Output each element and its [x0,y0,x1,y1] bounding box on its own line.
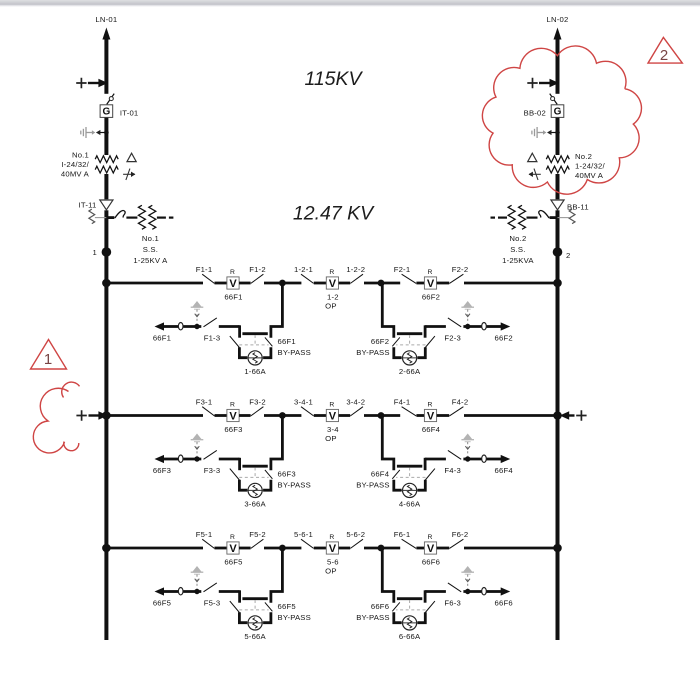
svg-text:1-66A: 1-66A [244,367,266,376]
wire station service continuation [498,217,507,219]
regulator 4-66A [403,483,417,497]
revision cloud 2 [482,46,641,194]
node junction left [279,412,286,419]
svg-text:No.2: No.2 [509,234,526,243]
svg-text:115KV: 115KV [304,68,363,90]
svg-text:2-66A: 2-66A [399,367,421,376]
wire branch feeder 66F5 [164,590,179,593]
wire [215,414,228,417]
grounded wye symbol [123,169,135,180]
bypass linkage dashed [396,335,425,345]
bypass switch bar 4-66A [397,465,422,468]
svg-text:40MV A: 40MV A [575,171,604,180]
bypass blade right [265,470,273,479]
node arrester tap 66F3 [194,456,199,461]
switch F1-3 [204,318,217,327]
grounded wye symbol [529,169,541,180]
wire regulator 1-66A frame left [239,347,247,357]
wire [416,414,424,417]
recloser 66F1 V box [227,277,239,289]
wire [339,414,351,417]
transformer station service No.2 winding 2 [508,205,515,229]
wire regulator 6-66A frame right [394,612,402,622]
svg-text:1-2: 1-2 [327,292,339,301]
bypass blade right [265,337,273,346]
wire [437,547,450,550]
wire [314,547,327,550]
node right bus junction row 1 [553,279,562,288]
svg-text:R: R [329,402,334,409]
svg-text:F3-2: F3-2 [249,398,266,407]
wire [339,547,351,550]
wire [264,547,282,550]
svg-text:R: R [230,402,235,409]
wire LN-02 tap arrow [527,78,537,88]
wire LN-01 incoming line arrow [102,28,110,40]
arrester 66F5 [191,566,204,589]
wire station service tap No.2 [550,216,558,219]
svg-text:R: R [329,534,334,541]
arrester 66F1 [191,301,204,324]
ground symbol grey [532,127,545,138]
node junction right [378,280,385,287]
arrester 66F3 [191,434,204,457]
regulator 3-66A [248,483,262,497]
svg-text:3-66A: 3-66A [244,499,266,508]
breaker BB-02 G box [551,105,564,118]
arrow feeder 66F4 out [501,455,511,463]
wire drop from junction to bypass 2-66A [382,283,394,338]
transformer No.2 primary winding [555,155,559,174]
wire [264,414,282,417]
fuse cutout on 66F3 [178,455,183,462]
bypass blade left [425,469,435,480]
wire right bus [556,34,560,640]
bypass blade left [425,601,435,612]
bypass blade left [230,469,240,480]
node junction left [279,545,286,552]
svg-text:66F5: 66F5 [153,599,171,608]
transformer No.2 secondary winding [546,166,569,173]
switch disconnect above IT-01 [103,94,109,105]
arrow feeder 66F3 out [155,455,165,463]
svg-text:4-66A: 4-66A [399,499,421,508]
wire [314,414,327,417]
svg-text:F2-1: F2-1 [394,265,411,274]
wire bypass stub [424,590,427,602]
switch F6-3 [448,583,461,592]
svg-text:R: R [230,269,235,276]
node arrester tap 66F4 [465,456,470,461]
bypass switch bar 5-66A [242,597,267,600]
svg-text:V: V [329,543,337,555]
wire feeder F3 from left bus [106,414,203,417]
svg-text:F6-1: F6-1 [394,530,411,539]
switch F3-3 [204,450,217,459]
bypass linkage dashed [239,468,268,478]
revision cloud 1 [62,382,80,397]
svg-text:LN-02: LN-02 [547,15,569,24]
recloser 5-6 V box [326,542,338,554]
svg-text:66F2: 66F2 [371,337,389,346]
svg-text:F5-1: F5-1 [196,530,213,539]
svg-text:1-25KV A: 1-25KV A [133,256,168,265]
wire regulator 5-66A frame left [239,612,247,622]
svg-text:F5-2: F5-2 [249,530,266,539]
wire [215,547,228,550]
node 1 [102,247,112,257]
wire regulator 2-66A frame right [394,347,402,357]
station service switch blade [115,210,125,218]
station service switch blade [539,210,549,218]
arrester zigzag at BB-11 junction [558,217,570,219]
svg-text:F3-3: F3-3 [204,466,221,475]
svg-text:3-4: 3-4 [327,425,339,434]
svg-text:S.S.: S.S. [143,245,158,254]
svg-text:66F6: 66F6 [371,602,389,611]
wire [364,414,381,417]
wire regulator 4-66A frame left [418,480,426,490]
bypass blade right [392,337,400,346]
svg-text:BY-PASS: BY-PASS [278,481,311,490]
wire bypass stub [424,325,427,337]
wire tap arrow right bus row 2 [576,410,586,420]
svg-text:F5-3: F5-3 [204,599,221,608]
wire regulator 3-66A frame right [263,480,271,490]
wire tap arrow left bus row 2 [76,410,86,420]
svg-text:12.47 KV: 12.47 KV [293,203,375,225]
bypass linkage dashed [239,335,268,345]
breaker BB-11 triangle [555,199,559,210]
wire [364,547,381,550]
wire to station service transformer No.2 [527,217,538,219]
svg-text:F6-3: F6-3 [444,599,461,608]
revision triangle 1 [31,340,67,370]
wire bypass stub [238,458,241,470]
bypass linkage dashed [396,600,425,610]
fuse cutout on 66F1 [178,323,183,330]
svg-text:OP: OP [325,434,337,443]
wire [381,547,400,550]
svg-text:2: 2 [566,251,570,260]
wire [464,414,558,417]
svg-text:V: V [229,543,237,555]
bypass switch bar 1-66A [242,332,267,335]
wire LN-02 incoming line arrow [554,28,562,40]
svg-text:IT-01: IT-01 [120,108,139,117]
node junction right [378,545,385,552]
wire station service tap No.1 [106,216,114,219]
wire station service continuation [157,217,166,219]
svg-text:66F5: 66F5 [224,557,242,566]
breaker IT-01 G box [100,105,113,118]
svg-text:No.1: No.1 [142,234,159,243]
svg-text:66F5: 66F5 [278,602,296,611]
node right bus junction row 2 [553,411,562,420]
transformer station service No.2 winding 1 [519,205,526,229]
svg-text:F4-3: F4-3 [444,466,461,475]
wire [381,414,400,417]
svg-text:F4-2: F4-2 [452,398,469,407]
transformer No.1 primary winding [104,155,108,174]
recloser 1-2 V box [326,277,338,289]
svg-text:V: V [229,278,237,290]
node arrester tap 66F2 [465,324,470,329]
wire regulator 1-66A frame right [263,347,271,357]
regulator 6-66A [403,616,417,630]
recloser 66F5 V box [227,542,239,554]
svg-text:1: 1 [44,351,52,368]
svg-text:F1-3: F1-3 [204,334,221,343]
svg-text:66F6: 66F6 [422,557,440,566]
svg-text:No.2: No.2 [575,152,592,161]
wire regulator 2-66A frame left [418,347,426,357]
svg-text:LN-01: LN-01 [95,15,117,24]
svg-text:F2-2: F2-2 [452,265,469,274]
svg-text:66F4: 66F4 [422,425,441,434]
svg-text:66F1: 66F1 [153,334,171,343]
svg-text:F1-2: F1-2 [249,265,266,274]
node 2 [553,247,563,257]
svg-text:5-6-2: 5-6-2 [346,530,365,539]
bypass blade right [392,602,400,611]
wire branch feeder 66F2 [487,325,502,328]
node right bus junction row 3 [553,544,562,553]
svg-text:BB-02: BB-02 [524,108,546,117]
recloser 66F6 V box [424,542,436,554]
arrester 66F6 [461,566,474,589]
svg-text:66F1: 66F1 [278,337,296,346]
wire left bus [104,34,108,640]
node junction right [378,412,385,419]
arrow feeder 66F2 out [501,322,511,330]
svg-text:F3-1: F3-1 [196,398,213,407]
node left bus junction row 2 [102,411,111,420]
wire [282,547,301,550]
bypass switch bar 6-66A [397,597,422,600]
svg-text:OP: OP [325,566,337,575]
svg-text:1-24/32/: 1-24/32/ [575,162,605,171]
bypass linkage dashed [239,600,268,610]
svg-text:OP: OP [325,301,337,310]
arrow feeder 66F6 out [501,587,511,595]
bypass blade left [230,601,240,612]
svg-text:F1-1: F1-1 [196,265,213,274]
node left bus junction row 1 [102,279,111,288]
node arrester tap 66F5 [194,589,199,594]
recloser 3-4 V box [326,409,338,421]
svg-text:6-66A: 6-66A [399,632,421,641]
regulator 5-66A [248,616,262,630]
svg-text:No.1: No.1 [72,151,89,160]
svg-text:BY-PASS: BY-PASS [356,348,389,357]
wire regulator 3-66A frame left [239,480,247,490]
wire feeder F5 from left bus [106,547,203,550]
svg-text:G: G [103,106,111,117]
wire [215,282,228,285]
svg-text:1-2-1: 1-2-1 [294,265,313,274]
svg-text:5-66A: 5-66A [244,632,266,641]
wire [364,282,381,285]
ground symbol grey [81,127,94,138]
wire [416,282,424,285]
svg-text:66F3: 66F3 [224,425,242,434]
bypass blade left [425,336,435,347]
wire [239,282,251,285]
wire to station service transformer No.1 [126,217,137,219]
svg-text:1: 1 [93,248,97,257]
svg-text:3-4-2: 3-4-2 [346,398,365,407]
recloser 66F4 V box [424,409,436,421]
svg-text:66F6: 66F6 [495,599,513,608]
wire [314,282,327,285]
wire [282,282,301,285]
ground tap of transformer No.2 [555,130,560,135]
switch F5-3 [204,583,217,592]
wire drop from junction to bypass 3-66A [271,416,283,471]
svg-text:5-6: 5-6 [327,557,339,566]
node arrester tap 66F1 [194,324,199,329]
recloser 66F3 V box [227,409,239,421]
svg-text:R: R [230,534,235,541]
wire [339,282,351,285]
wire [437,282,450,285]
wire regulator 5-66A frame right [263,612,271,622]
wire drop from junction to bypass 6-66A [382,548,394,603]
svg-text:R: R [427,534,432,541]
fuse cutout on 66F5 [178,588,183,595]
wire branch feeder 66F6 [487,590,502,593]
svg-text:V: V [427,543,435,555]
svg-text:F2-3: F2-3 [444,334,461,343]
bypass blade right [265,602,273,611]
delta symbol [127,153,136,161]
wire [282,414,301,417]
recloser 66F2 V box [424,277,436,289]
regulator 2-66A [403,351,417,365]
bypass blade right [392,470,400,479]
svg-text:3-4-1: 3-4-1 [294,398,313,407]
wire drop from junction to bypass 1-66A [271,283,283,338]
wire [239,414,251,417]
svg-text:V: V [427,411,435,423]
svg-text:66F4: 66F4 [371,470,390,479]
svg-text:V: V [427,278,435,290]
svg-text:V: V [329,278,337,290]
svg-text:S.S.: S.S. [510,245,525,254]
wire bypass stub [238,590,241,602]
ground tap of transformer No.1 [104,130,109,135]
svg-text:BY-PASS: BY-PASS [356,613,389,622]
bypass switch bar 2-66A [397,332,422,335]
svg-text:F6-2: F6-2 [452,530,469,539]
svg-text:2: 2 [660,47,668,64]
wire [437,414,450,417]
regulator 1-66A [248,351,262,365]
svg-text:G: G [554,106,562,117]
wire [239,547,251,550]
svg-text:V: V [329,411,337,423]
transformer No.1 secondary winding [95,166,118,173]
bypass linkage dashed [396,468,425,478]
node left bus junction row 3 [102,544,111,553]
svg-text:40MV A: 40MV A [61,170,90,179]
revision triangle 2 [648,37,682,63]
arrester zigzag at IT-11 junction [95,217,107,219]
wire branch feeder 66F1 [164,325,179,328]
svg-text:66F4: 66F4 [495,466,514,475]
svg-text:BY-PASS: BY-PASS [278,613,311,622]
wire [264,282,282,285]
delta symbol [528,153,537,161]
bypass switch bar 3-66A [242,465,267,468]
wire [464,282,558,285]
node junction left [279,280,286,287]
svg-text:1-2-2: 1-2-2 [346,265,365,274]
wire regulator 6-66A frame left [418,612,426,622]
switch F2-3 [448,318,461,327]
transformer station service No.1 winding 2 [149,205,156,229]
fuse cutout on 66F6 [482,588,487,595]
switch F4-3 [448,450,461,459]
svg-text:66F2: 66F2 [495,334,513,343]
bypass blade left [230,336,240,347]
svg-text:F4-1: F4-1 [394,398,411,407]
wire bypass stub [238,325,241,337]
svg-text:R: R [427,402,432,409]
wire feeder F1 from left bus [106,282,203,285]
wire [416,547,424,550]
wire bypass stub [424,458,427,470]
transformer station service No.1 winding 1 [138,205,145,229]
wire drop from junction to bypass 5-66A [271,548,283,603]
svg-text:66F3: 66F3 [278,470,296,479]
arrow feeder 66F1 out [155,322,165,330]
arrester 66F2 [461,301,474,324]
fuse cutout on 66F2 [482,323,487,330]
wire drop from junction to bypass 4-66A [382,416,394,471]
svg-text:V: V [229,411,237,423]
svg-text:I-24/32/: I-24/32/ [61,160,89,169]
svg-text:BY-PASS: BY-PASS [356,481,389,490]
breaker IT-11 triangle [104,199,108,210]
wire [464,547,558,550]
svg-text:IT-11: IT-11 [79,200,97,209]
svg-text:BY-PASS: BY-PASS [278,348,311,357]
arrester 66F4 [461,434,474,457]
wire LN-01 tap arrow [76,78,86,88]
switch disconnect above BB-02 [555,94,561,105]
wire branch feeder 66F3 [164,458,179,461]
wire branch feeder 66F4 [487,458,502,461]
svg-text:R: R [427,269,432,276]
svg-text:66F1: 66F1 [224,292,242,301]
node arrester tap 66F6 [465,589,470,594]
svg-text:66F3: 66F3 [153,466,171,475]
svg-text:66F2: 66F2 [422,292,440,301]
svg-text:R: R [329,269,334,276]
svg-text:5-6-1: 5-6-1 [294,530,313,539]
svg-text:1-25KVA: 1-25KVA [502,256,534,265]
wire regulator 4-66A frame right [394,480,402,490]
fuse cutout on 66F4 [482,455,487,462]
wire [381,282,400,285]
arrow feeder 66F5 out [155,587,165,595]
